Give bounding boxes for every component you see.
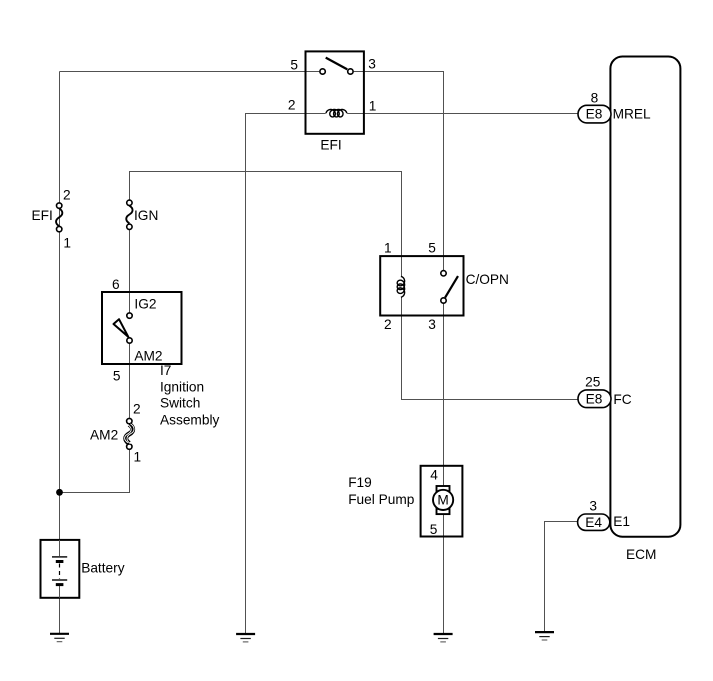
- fuel pump brush bottom: [437, 509, 450, 514]
- svg-text:2: 2: [288, 98, 296, 113]
- wire ignition switch AM2 to AM2 fuse: [129, 344, 131, 418]
- fuse EFI bottom circle: [57, 226, 62, 231]
- relay C/OPN coil: [397, 276, 404, 297]
- svg-text:EFI: EFI: [32, 208, 53, 223]
- svg-text:E8: E8: [586, 107, 603, 122]
- svg-text:5: 5: [290, 58, 298, 73]
- node A junction dot: [56, 489, 63, 496]
- battery internal wire top: [59, 540, 61, 556]
- svg-text:IG2: IG2: [134, 297, 156, 312]
- svg-text:1: 1: [134, 450, 142, 465]
- wire C/OPN pin 2 to ECM FC: [402, 297, 579, 399]
- fuel pump F19 box: [421, 466, 463, 537]
- battery plate long 2: [52, 579, 67, 581]
- fuse IGN top circle: [127, 200, 132, 205]
- svg-text:2: 2: [133, 402, 141, 417]
- svg-text:1: 1: [384, 240, 392, 255]
- svg-text:Switch: Switch: [160, 396, 200, 411]
- relay C/OPN switch blade: [445, 276, 458, 298]
- fuse IGN squiggle: [126, 206, 132, 224]
- switch key wedge blade: [114, 319, 129, 337]
- wire ECM E1 to ground G3: [545, 522, 578, 633]
- svg-text:Assembly: Assembly: [160, 413, 219, 428]
- svg-text:C/OPN: C/OPN: [466, 272, 509, 287]
- fuel pump brush top: [437, 486, 450, 491]
- wire IGN fuse to C/OPN pin 1: [130, 172, 402, 277]
- switch AM2 contact circle: [127, 338, 132, 343]
- relay C/OPN contact circle pin 3: [441, 298, 446, 303]
- svg-text:5: 5: [430, 522, 438, 537]
- wire battery negative to ground G4: [59, 598, 61, 634]
- fuse EFI top circle: [57, 203, 62, 208]
- relay EFI contact circle pin 5: [320, 69, 325, 74]
- relay C/OPN box: [380, 256, 463, 315]
- svg-text:5: 5: [428, 240, 436, 255]
- svg-text:4: 4: [430, 467, 438, 482]
- fuse EFI squiggle: [56, 209, 62, 227]
- connector E8 FC oval: [578, 390, 611, 408]
- svg-text:25: 25: [585, 375, 601, 390]
- ground G1: [236, 634, 255, 642]
- svg-text:Battery: Battery: [81, 561, 125, 576]
- svg-text:E4: E4: [585, 515, 602, 530]
- svg-text:6: 6: [112, 277, 120, 292]
- battery dashed link: [59, 564, 61, 580]
- wire EFI relay pin 1 to ECM MREL: [347, 113, 578, 115]
- battery plate long 1: [52, 556, 67, 558]
- ground G4 battery: [50, 634, 69, 642]
- fuse AM2 fusible link thick squiggle: [125, 424, 134, 444]
- connector E4 E1 oval: [578, 514, 610, 530]
- relay EFI coil: [326, 110, 347, 117]
- ground G3: [535, 632, 554, 640]
- svg-text:F19: F19: [348, 475, 372, 490]
- svg-text:E8: E8: [586, 392, 603, 407]
- svg-text:Fuel Pump: Fuel Pump: [348, 492, 415, 507]
- battery plate short 1: [56, 560, 64, 563]
- svg-text:IGN: IGN: [134, 208, 158, 223]
- wire fuel pump pin 5 to ground G2: [443, 514, 445, 634]
- svg-text:1: 1: [369, 98, 377, 113]
- wire battery positive vertical: [59, 72, 61, 541]
- wire EFI relay pin 3 to C/OPN pin 5: [354, 72, 444, 271]
- relay EFI switch blade: [326, 58, 348, 70]
- svg-text:2: 2: [384, 317, 392, 332]
- svg-text:AM2: AM2: [134, 349, 162, 364]
- svg-text:8: 8: [591, 91, 599, 106]
- relay EFI contact circle pin 3: [348, 69, 353, 74]
- svg-text:2: 2: [63, 188, 71, 203]
- wire top horizontal battery to EFI relay pin 5: [60, 71, 320, 73]
- svg-text:E1: E1: [613, 514, 630, 529]
- battery plate short 2: [56, 583, 64, 586]
- wire C/OPN pin 3 to fuel pump pin 4: [443, 304, 445, 487]
- svg-text:5: 5: [113, 369, 121, 384]
- wire IGN fuse to ignition switch IG2: [129, 230, 131, 313]
- svg-text:M: M: [437, 493, 448, 508]
- fuse IGN bottom circle: [127, 224, 132, 229]
- wire EFI relay pin 2 to ground G1: [246, 114, 326, 635]
- battery internal wire bottom: [59, 586, 61, 598]
- svg-text:Ignition: Ignition: [160, 379, 204, 394]
- switch IG2 contact circle: [127, 313, 132, 318]
- svg-text:AM2: AM2: [90, 428, 118, 443]
- relay EFI box: [306, 51, 364, 133]
- battery box: [41, 540, 80, 598]
- ground G2: [434, 634, 453, 642]
- connector E8 MREL oval: [578, 105, 611, 123]
- fuel pump motor circle: [433, 490, 453, 510]
- svg-text:FC: FC: [613, 392, 631, 407]
- switch I7 ignition switch box: [102, 292, 182, 364]
- wire AM2 fuse to junction A: [60, 450, 130, 493]
- svg-text:3: 3: [428, 317, 436, 332]
- ECM box: [610, 57, 680, 537]
- svg-text:EFI: EFI: [320, 138, 341, 153]
- svg-text:ECM: ECM: [626, 547, 656, 562]
- svg-text:MREL: MREL: [613, 107, 651, 122]
- fuse AM2 top circle: [127, 418, 132, 423]
- svg-text:1: 1: [63, 236, 71, 251]
- svg-text:3: 3: [589, 499, 597, 514]
- fuse AM2 bottom circle: [127, 444, 132, 449]
- svg-text:3: 3: [368, 57, 376, 72]
- svg-text:I7: I7: [160, 363, 171, 378]
- relay C/OPN contact circle pin 5: [441, 271, 446, 276]
